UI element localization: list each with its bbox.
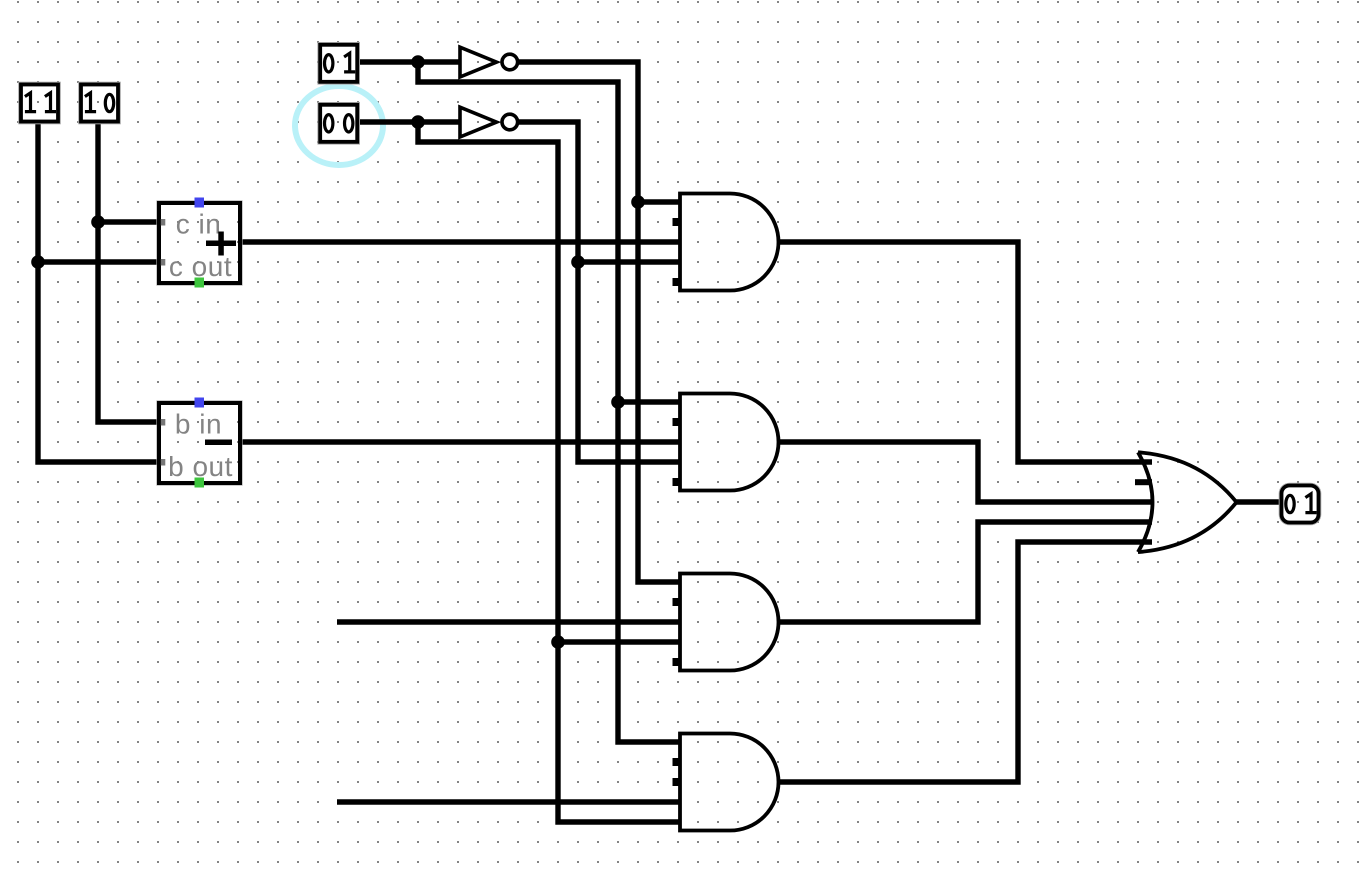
subcircuit carry box (c in / c out) [157, 198, 242, 288]
wire branch: b-direct to AND3 input 4 [558, 639, 680, 644]
OR gate U7 [1138, 452, 1237, 552]
wire branch B: to c in input [98, 219, 158, 224]
wire: b out to AND2 input 3 [238, 439, 680, 444]
wire: NOT1 output down to AND3 input 1 [518, 62, 680, 582]
pin marker green (bottom of c box) [195, 278, 205, 288]
wire: AND2 output to OR input 3 [778, 442, 1152, 502]
AND gate U6 unconnected input stubs [673, 758, 682, 786]
selection halo around pin 0 0 [295, 86, 383, 165]
input pin 0 0 [318, 103, 359, 144]
output pin 0 1 [1280, 484, 1321, 525]
value label - on borrow box output [205, 440, 232, 446]
wire: pin 0 0 to NOT2 input [358, 119, 460, 124]
wire net A: pin 1 1 down to b out input [38, 122, 158, 462]
AND gate U4 [680, 394, 779, 491]
svg-text:c out: c out [169, 251, 232, 282]
subcircuit borrow box (b in / b out) [157, 398, 242, 488]
pin marker green (bottom of b box) [195, 478, 205, 488]
wire: c out to AND1 input 3 [238, 239, 680, 244]
junction (38,262) [31, 255, 45, 269]
svg-text:b out: b out [168, 451, 233, 482]
wire branch: NOT2 output to AND1 input 4 [578, 259, 680, 264]
AND gate U5 [680, 574, 779, 671]
wire: dangling to AND3 input 3 [337, 619, 680, 624]
wire: OR output to output pin [1235, 499, 1281, 504]
AND gate U3 [680, 194, 778, 291]
wire branch A: to c out input [38, 259, 158, 264]
svg-text:c in: c in [176, 209, 222, 240]
input pin 0 1 [318, 43, 359, 84]
junction (638,202) [631, 195, 645, 209]
OR gate U7 unconnected input stub [1135, 479, 1152, 485]
wire branch: a-direct to AND2 input 1 [618, 399, 680, 404]
wire: AND3 output to OR input 4 [778, 522, 1152, 622]
wire net B: pin 1 0 down to b in input [98, 122, 158, 422]
svg-text:b in: b in [175, 409, 222, 440]
pin marker blue (top of c box) [195, 198, 205, 208]
wire: pin 0 1 to NOT1 input [358, 59, 460, 64]
wire: dangling to AND4 input 4 [337, 799, 680, 804]
wire: NOT2 output down to AND2 input 4 [518, 122, 680, 462]
junction (558,642) [551, 635, 565, 649]
wire branch: NOT1 output to AND1 input 1 [638, 199, 680, 204]
pin marker blue (top of b box) [195, 398, 205, 408]
input pin 1 0 [79, 83, 120, 124]
inverter U2 (lower NOT gate) [460, 107, 518, 137]
value label + on carry box output [206, 241, 236, 247]
AND gate U3 unconnected input stubs [673, 218, 682, 286]
junction (578,262) [571, 255, 585, 269]
junction (98,222) [91, 215, 105, 229]
wire: AND1 output to OR input 1 [778, 242, 1152, 462]
wire: b-direct bypass down to AND4 input 5 [418, 122, 680, 822]
wire: AND4 output to OR input 5 [778, 542, 1152, 782]
junction (418,62) [411, 55, 425, 69]
wire: a-direct bypass down to AND4 input 1 [418, 62, 680, 742]
AND gate U5 unconnected input stubs [673, 598, 682, 666]
AND gate U4 unconnected input stubs [673, 418, 682, 486]
AND gate U6 [680, 734, 779, 831]
junction (418,122) [411, 115, 425, 129]
junction (618,402) [611, 395, 625, 409]
inverter U1 (top NOT gate) [460, 47, 518, 77]
input pin 1 1 [19, 83, 60, 124]
